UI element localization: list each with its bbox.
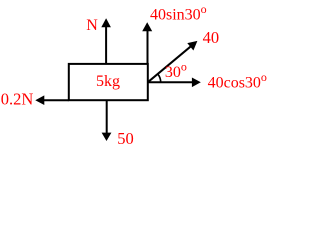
arrow 50 (weight, down) [102,100,112,141]
arrow N (normal force, up) [101,18,111,64]
svg-text:40sin30o: 40sin30o [150,2,207,24]
svg-text:50: 50 [117,129,134,148]
svg-text:40cos30o: 40cos30o [208,70,267,92]
svg-text:0.2N: 0.2N [1,90,34,109]
arrow 40cos30 (horizontal component, right) [148,78,201,88]
block 5kg [69,64,148,100]
angle arc 30 degrees [158,74,161,83]
svg-text:5kg: 5kg [96,73,120,90]
arrow 40sin30 (vertical component, up) [142,22,152,64]
arrow 40 (applied force, diagonal) [148,41,198,82]
svg-text:30o: 30o [165,59,187,81]
svg-text:40: 40 [203,28,220,47]
svg-text:N: N [86,17,98,34]
arrow 0.2N (friction, left) [35,95,69,105]
